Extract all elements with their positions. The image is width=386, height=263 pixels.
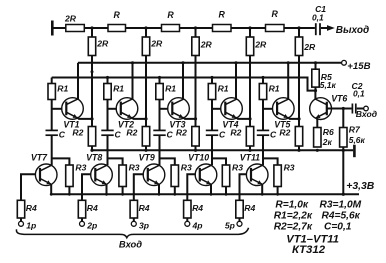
svg-text:R=1,0к: R=1,0к [275, 200, 308, 211]
transistor VT9 [143, 164, 165, 186]
svg-text:+15В: +15В [347, 61, 370, 72]
wire: emitter VT1 to ladder [77, 117, 92, 119]
wire: emitter VT7 to ground bus [50, 184, 52, 194]
node: collector junction VT5 [287, 61, 290, 64]
svg-text:R1: R1 [269, 83, 280, 93]
svg-text:C: C [219, 129, 226, 139]
wire: base wire VT2 [108, 108, 117, 110]
resistor R (ladder series 1) [108, 25, 126, 32]
terminal 5р [237, 221, 242, 226]
resistor R5 [315, 63, 317, 69]
wire: R4 to terminal 3 [133, 218, 135, 221]
wire: base wire VT1 [52, 108, 63, 110]
resistor R1 (stage 3) [156, 84, 163, 100]
svg-text:R2=2,7к: R2=2,7к [274, 222, 313, 233]
resistor R (ladder series 4) [266, 25, 285, 32]
svg-text:Выход: Выход [336, 25, 369, 36]
capacitor C (stage 4) [206, 129, 218, 131]
ground bar (common) [353, 145, 356, 157]
wire: collector VT4 [235, 63, 237, 99]
svg-text:VT8: VT8 [86, 153, 102, 163]
svg-text:R1: R1 [57, 83, 68, 93]
node: emitter-bus junction VT7 [50, 193, 53, 196]
svg-text:C=0,1: C=0,1 [324, 222, 352, 233]
resistor R4 (stage 2) [78, 200, 85, 218]
svg-text:Вход: Вход [356, 109, 377, 119]
svg-text:VT10: VT10 [188, 153, 209, 163]
resistor 2R (shunt 1) [88, 37, 95, 56]
svg-text:2R: 2R [303, 42, 316, 52]
resistor R3 (stage 3) [174, 165, 176, 194]
wire: emitter VT3 to ladder [183, 117, 195, 119]
svg-text:5,6к: 5,6к [349, 135, 366, 145]
wire: R1/base/C vertical 3 [159, 78, 161, 131]
svg-text:VT5: VT5 [274, 120, 290, 130]
svg-text:R3: R3 [75, 163, 86, 173]
wire: ladder vertical 4 (2R/emitter/R2 chain) [249, 28, 251, 150]
wire: collector VT3 [182, 63, 184, 99]
brace: input group [16, 228, 248, 238]
capacitor C2 [351, 104, 353, 114]
node: bias bus junction 2 [106, 76, 109, 79]
node: bias bus junction 3 [158, 76, 161, 79]
svg-text:2R: 2R [96, 39, 109, 49]
node: R2 bottom junction 2 [144, 149, 147, 152]
node: emitter junction 2 [144, 117, 147, 120]
svg-text:VT4: VT4 [222, 120, 238, 130]
resistor R6 [314, 128, 321, 148]
wire: VT8 collector link to R3 [108, 158, 123, 165]
node: R3 bottom junction 3 [173, 193, 176, 196]
resistor R3 (stage 4) [225, 165, 227, 194]
node: emitter-bus junction VT10 [210, 193, 213, 196]
wire: base wire VT11 [240, 174, 248, 200]
resistor 2R (shunt 5) [295, 37, 302, 56]
wire: base wire VT10 [187, 174, 196, 200]
terminal 2р [80, 221, 85, 226]
node: R7 / ground bus junction [342, 149, 345, 152]
wire: emitter VT9 to ground bus [158, 184, 160, 194]
svg-text:2к: 2к [322, 137, 333, 147]
node: R3 bottom junction 5 [276, 193, 279, 196]
node: emitter-bus junction VT8 [105, 193, 108, 196]
node: collector junction VT2 [131, 61, 134, 64]
node: ladder junction 1 [90, 26, 93, 29]
resistor R4 (stage 1) [17, 200, 24, 218]
capacitor C (stage 5) [257, 129, 269, 131]
wire: collector bus to +15V [78, 62, 342, 64]
wire: R4 to terminal 4 [186, 218, 188, 221]
node: emitter junction 4 [248, 117, 251, 120]
svg-text:R4: R4 [26, 203, 37, 213]
values text block [274, 200, 362, 256]
wire: base wire VT5 [263, 108, 273, 110]
wire: lower ground bus (+3,3V rail) [51, 193, 359, 195]
resistor R (ladder series 3) [213, 25, 232, 32]
wire: VT6 emitter to R6 [316, 118, 318, 128]
svg-text:3р: 3р [139, 220, 149, 230]
svg-text:5,1к: 5,1к [320, 80, 337, 90]
resistor R2 (stage 1) [88, 127, 95, 147]
capacitor C (stage 1) [46, 129, 58, 131]
svg-text:R: R [167, 10, 174, 20]
svg-text:R4: R4 [244, 203, 255, 213]
resistor R2 (stage 5) [295, 127, 302, 147]
transistor VT10 [195, 164, 217, 186]
node: emitter junction 3 [194, 117, 197, 120]
wire: emitter VT10 to ground bus [210, 184, 212, 194]
resistor 2R (top-left horizontal) [66, 25, 85, 32]
svg-text:VT9: VT9 [139, 153, 155, 163]
wire: ladder vertical 5 (2R/emitter/R2 chain) [298, 28, 300, 150]
wire: R1/base/C vertical 2 [107, 78, 109, 131]
svg-text:Вход: Вход [119, 239, 142, 250]
resistor R3 (stage 1) [68, 165, 70, 194]
wire: R1/base/C vertical 4 [211, 78, 213, 131]
capacitor C (stage 3) [153, 129, 165, 131]
svg-text:C: C [59, 129, 66, 139]
svg-text:R1=2,2к: R1=2,2к [274, 211, 313, 222]
transistor VT7 [35, 164, 57, 186]
svg-text:2р: 2р [86, 220, 97, 230]
resistor R1 (stage 2) [104, 84, 111, 100]
transistor VT1 [62, 98, 84, 120]
resistor R2 (stage 4) [246, 127, 253, 147]
svg-text:R3: R3 [232, 163, 243, 173]
node: ladder junction 5 [297, 26, 300, 29]
svg-text:C: C [270, 129, 277, 139]
node: emitter junction 1 [90, 117, 93, 120]
node: ladder junction 4 [248, 26, 251, 29]
resistor R3 (stage 5) [277, 165, 279, 194]
node: R2 bottom junction 1 [90, 149, 93, 152]
wire: VT6 collector [314, 91, 316, 100]
node: bias bus junction 4 [210, 76, 213, 79]
wire: R1/base/C vertical 1 [51, 78, 53, 131]
capacitor C1 [315, 23, 317, 35]
transistor VT6 (mirrored) [310, 98, 332, 120]
node: R3 bottom junction 2 [121, 193, 124, 196]
resistor 2R (shunt 4) [246, 37, 253, 56]
svg-text:R4: R4 [139, 203, 150, 213]
svg-text:R6: R6 [323, 127, 334, 137]
ground terminal bar top-left [51, 21, 54, 36]
node: ladder junction 2 [144, 26, 147, 29]
node: R2 bottom junction 5 [297, 149, 300, 152]
wire: R4 to terminal 5 [239, 218, 241, 221]
svg-text:R: R [219, 9, 226, 19]
node: R5 bottom / bias junction [314, 89, 317, 92]
wire: VT7 collector link to R3 [52, 158, 70, 165]
svg-text:R1: R1 [218, 83, 229, 93]
wire: VT11 collector link to R3 [263, 158, 278, 165]
resistor R3 (stage 2) [122, 165, 124, 194]
svg-text:2R: 2R [200, 40, 213, 50]
wire: ladder vertical 1 (2R/emitter/R2 chain) [91, 28, 93, 150]
wire: emitter VT2 to ladder [132, 117, 146, 119]
transistor VT4 [221, 98, 243, 120]
resistor R4 (stage 5) [236, 200, 243, 218]
svg-text:VT6: VT6 [331, 94, 347, 104]
wire: R4 to terminal 2 [81, 218, 83, 221]
svg-text:0,1: 0,1 [312, 13, 324, 23]
node: stray junction blob [91, 70, 94, 73]
wire: collector VT2 [132, 63, 134, 99]
svg-text:R4: R4 [87, 203, 98, 213]
svg-text:4р: 4р [192, 220, 203, 230]
wire: base bias bus [52, 78, 316, 91]
wire: base wire VT8 [82, 174, 91, 200]
svg-text:0,1: 0,1 [353, 89, 365, 99]
wire: ladder vertical 2 (2R/emitter/R2 chain) [145, 28, 147, 150]
svg-text:R3=1,0М: R3=1,0М [320, 200, 362, 211]
node: R7 top junction [342, 107, 345, 110]
transistor VT2 [116, 98, 138, 120]
node: R2 bottom junction 4 [248, 149, 251, 152]
svg-text:VT3: VT3 [169, 120, 185, 130]
svg-text:VT7: VT7 [31, 153, 48, 163]
svg-text:VT1: VT1 [63, 120, 79, 130]
svg-text:R7: R7 [349, 125, 361, 135]
wire: emitter VT8 to ground bus [106, 184, 108, 194]
svg-text:1р: 1р [26, 220, 36, 230]
resistor R (ladder series 2) [162, 25, 180, 32]
svg-text:VT2: VT2 [118, 120, 134, 130]
resistor R1 (stage 5) [259, 84, 266, 100]
node: R6 bottom junction [316, 149, 319, 152]
wire: upper ground bus [92, 149, 353, 151]
svg-text:C: C [115, 129, 122, 139]
wire: collector VT5 [287, 63, 289, 99]
svg-text:R3: R3 [129, 163, 140, 173]
node: ground link junction [342, 193, 345, 196]
svg-text:R1: R1 [113, 83, 124, 93]
wire: emitter VT5 to ladder [288, 117, 299, 119]
node: emitter junction 5 [297, 117, 300, 120]
transistor VT11 [246, 164, 268, 186]
wire: base wire VT9 [134, 174, 144, 200]
terminal 4р [185, 221, 190, 226]
transistor VT5 [273, 98, 295, 120]
node: emitter-bus junction VT11 [261, 193, 264, 196]
wire: input terminal [357, 108, 364, 110]
node: R3 bottom junction 1 [68, 193, 71, 196]
node: collector junction VT4 [234, 61, 237, 64]
resistor R4 (stage 3) [130, 200, 137, 218]
svg-text:R4=5,6к: R4=5,6к [322, 211, 361, 222]
resistor 2R (shunt 3) [192, 37, 199, 56]
svg-text:КТ312: КТ312 [292, 244, 326, 256]
wire: VT9 collector link to R3 [160, 158, 175, 165]
wire: VT10 collector link to R3 [212, 158, 226, 165]
node: ladder junction 3 [194, 26, 197, 29]
svg-text:2R: 2R [64, 14, 77, 24]
svg-text:VT11: VT11 [240, 153, 260, 163]
wire: emitter VT4 to ladder [236, 117, 250, 119]
wire: emitter VT11 to ground bus [261, 184, 263, 194]
svg-text:2R: 2R [150, 39, 163, 49]
wire: R4 to terminal 1 [20, 218, 22, 221]
node: R3 bottom junction 4 [225, 193, 228, 196]
svg-text:R3: R3 [284, 163, 295, 173]
svg-text:C: C [167, 129, 174, 139]
svg-text:2R: 2R [254, 40, 267, 50]
svg-text:+3,3В: +3,3В [346, 181, 375, 192]
svg-text:R1: R1 [165, 83, 176, 93]
power terminal +15V [342, 60, 347, 65]
resistor R2 (stage 3) [192, 127, 199, 147]
resistor R4 (stage 4) [184, 200, 191, 218]
node: collector junction VT3 [181, 61, 184, 64]
resistor R2 (stage 2) [142, 127, 149, 147]
wire: output arrow [321, 27, 327, 29]
wire: collector VT1 [77, 63, 79, 99]
resistor R1 (stage 1) [48, 84, 55, 100]
svg-text:R: R [272, 9, 279, 19]
wire: top ladder rail [52, 27, 315, 29]
node: R2 bottom junction 3 [194, 149, 197, 152]
transistor VT8 [91, 164, 113, 186]
wire: base wire VT4 [212, 108, 221, 110]
transistor VT3 [168, 98, 190, 120]
capacitor C (stage 2) [101, 129, 113, 131]
node: bias bus junction 5 [261, 76, 264, 79]
node: R5 top junction [314, 61, 317, 64]
svg-text:R3: R3 [181, 163, 192, 173]
resistor R7 [342, 109, 344, 195]
wire: base wire VT3 [160, 108, 169, 110]
wire: VT6 base line [327, 108, 352, 110]
svg-text:R: R [114, 10, 121, 20]
terminal 3р [131, 221, 136, 226]
svg-text:R4: R4 [192, 203, 203, 213]
resistor 2R (shunt 2) [142, 37, 149, 56]
terminal 1р [19, 221, 24, 226]
svg-text:5р: 5р [225, 220, 235, 230]
resistor R1 (stage 4) [208, 84, 215, 100]
node: emitter-bus junction VT9 [158, 193, 161, 196]
wire: base wire VT7 [21, 174, 36, 200]
wire: R1/base/C vertical 5 [262, 78, 264, 131]
wire: ladder vertical 3 (2R/emitter/R2 chain) [195, 28, 197, 150]
